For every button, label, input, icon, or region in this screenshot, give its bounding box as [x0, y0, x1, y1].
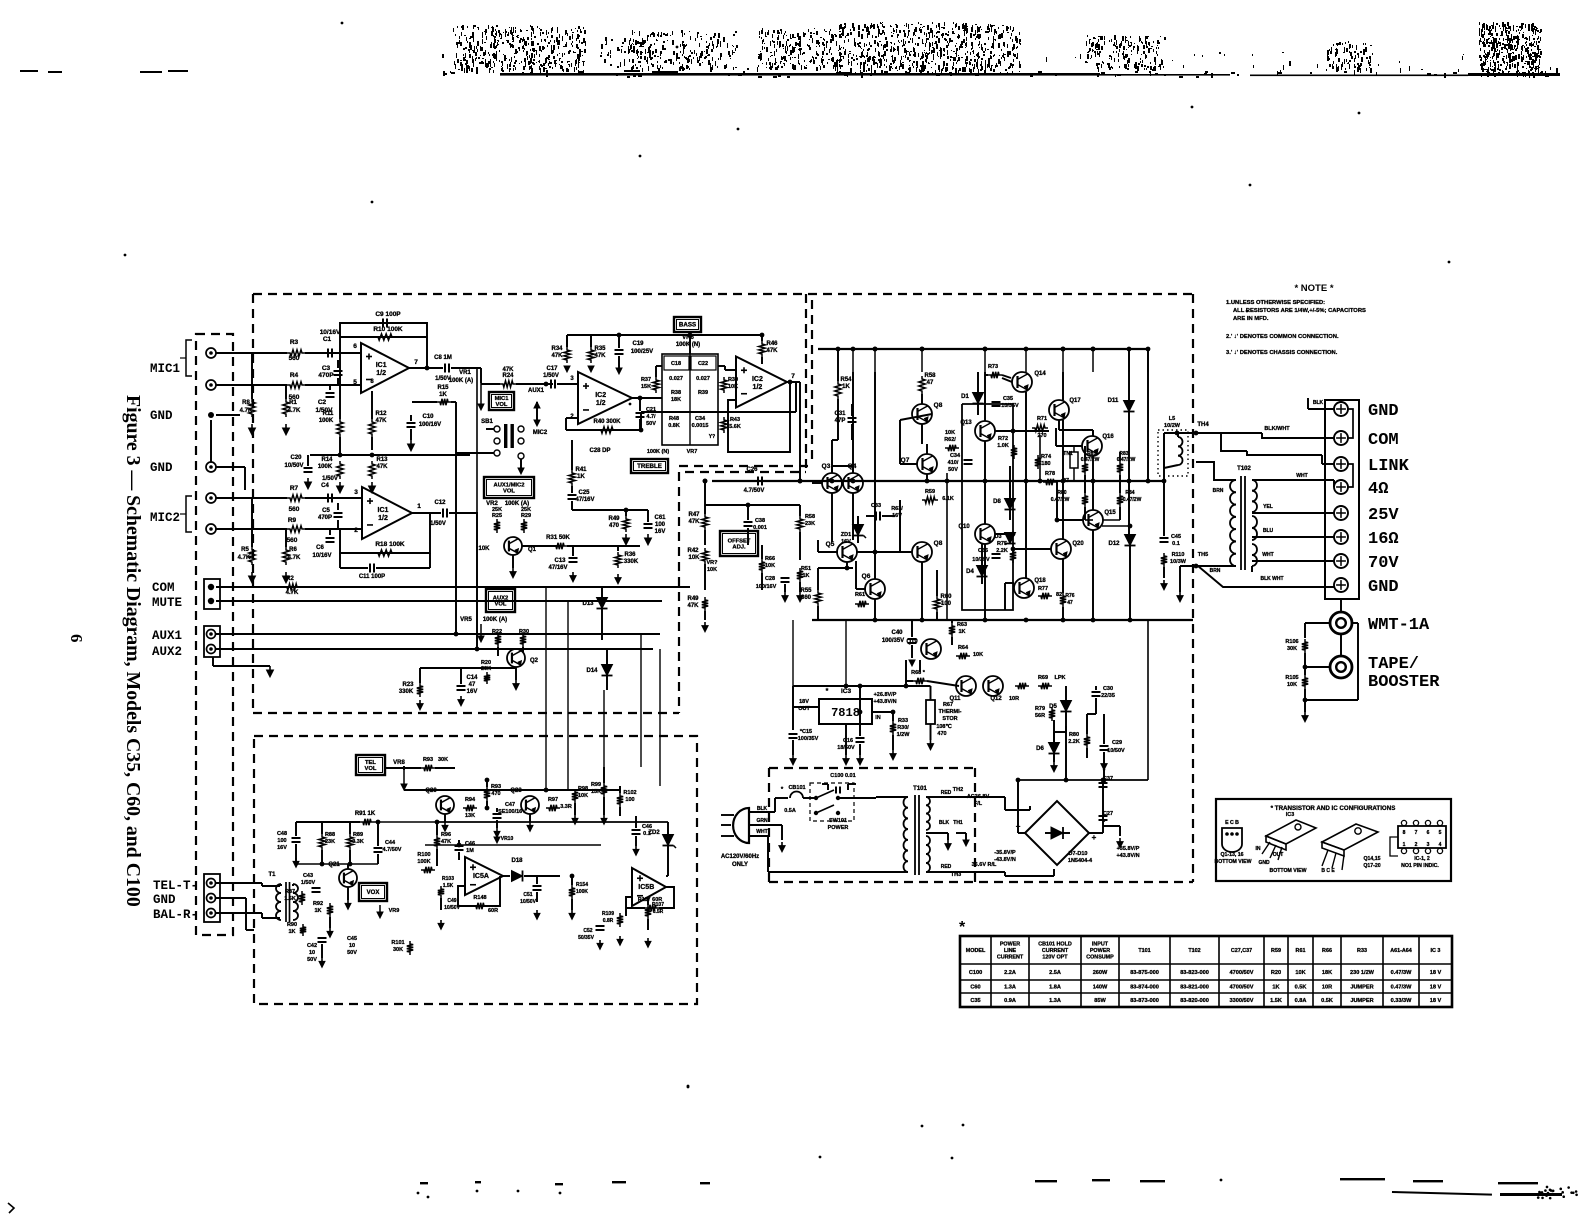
svg-text:10K: 10K	[973, 652, 983, 658]
svg-text:R90: R90	[287, 922, 297, 928]
TEL connector	[204, 874, 220, 922]
resistor R34	[564, 347, 570, 363]
svg-text:Q15: Q15	[1104, 510, 1116, 516]
svg-text:R22: R22	[492, 629, 502, 635]
svg-text:AUX1: AUX1	[528, 388, 545, 394]
svg-text:BOOSTER: BOOSTER	[1368, 673, 1440, 692]
svg-text:R23: R23	[402, 682, 414, 688]
rail supply	[1018, 779, 1148, 781]
svg-text:10/50V: 10/50V	[520, 899, 537, 905]
svg-text:VOL: VOL	[495, 602, 507, 608]
svg-text:470: 470	[609, 523, 620, 529]
terminal 70V	[1334, 554, 1348, 568]
svg-text:Q17-20: Q17-20	[1363, 863, 1380, 869]
svg-text:R98: R98	[578, 786, 588, 792]
transistor Q6	[865, 579, 885, 599]
wire bridge plus	[1089, 832, 1103, 834]
svg-text:R148: R148	[473, 895, 486, 901]
svg-text:IN: IN	[1256, 846, 1261, 852]
resistor R73t	[988, 372, 1002, 378]
wire Q13 row	[995, 430, 1049, 432]
wire x853	[852, 372, 854, 473]
svg-text:0.5K: 0.5K	[1295, 985, 1307, 991]
svg-text:VOL: VOL	[365, 766, 377, 772]
svg-text:C4: C4	[321, 483, 329, 489]
svg-text:47: 47	[469, 682, 476, 688]
transformer T102 core	[1240, 476, 1242, 570]
svg-text:VOL: VOL	[496, 402, 508, 408]
op-amp IC5A	[465, 857, 503, 895]
scan dash bottom	[1498, 1182, 1538, 1184]
svg-text:BOTTOM VIEW: BOTTOM VIEW	[1214, 859, 1251, 865]
resistor R88	[319, 834, 325, 850]
diode D1	[973, 393, 984, 404]
svg-text:330K: 330K	[624, 559, 639, 565]
wire x1148	[1147, 349, 1149, 481]
resistor R58	[919, 376, 925, 394]
svg-text:13K: 13K	[465, 813, 475, 819]
svg-text:R54: R54	[840, 377, 852, 383]
svg-text:+: +	[1092, 833, 1097, 842]
svg-text:23K: 23K	[805, 521, 815, 527]
svg-text:T101: T101	[1138, 948, 1150, 954]
capacitor C38	[744, 521, 753, 523]
bridge rectifier D7-D10	[1025, 801, 1089, 865]
svg-text:47K: 47K	[551, 353, 563, 359]
svg-text:2.5A: 2.5A	[1049, 970, 1061, 976]
svg-text:R94: R94	[465, 797, 476, 803]
svg-text:R106: R106	[1285, 639, 1298, 645]
svg-text:C27: C27	[1103, 811, 1113, 817]
transistor Q20t	[436, 796, 454, 814]
wire q6 base	[856, 588, 866, 590]
svg-text:BOTTOM VIEW: BOTTOM VIEW	[1269, 868, 1306, 874]
resistor R71	[1032, 425, 1048, 431]
output node wires	[1091, 479, 1096, 484]
wire plug grn	[748, 824, 782, 826]
svg-text:18/50V: 18/50V	[837, 745, 855, 751]
svg-text:0.8K: 0.8K	[668, 423, 680, 429]
svg-text:100K (A): 100K (A)	[449, 378, 473, 384]
capacitor C12	[442, 509, 444, 518]
resistor R90	[300, 924, 306, 936]
svg-text:C13: C13	[554, 558, 566, 564]
svg-text:R29: R29	[521, 513, 531, 519]
tone network box	[662, 354, 718, 445]
svg-text:R55: R55	[800, 588, 812, 594]
svg-text:MIC1: MIC1	[495, 396, 510, 402]
svg-text:1.3A: 1.3A	[1004, 985, 1016, 991]
terminal strip	[1325, 400, 1359, 599]
svg-text:R43: R43	[730, 417, 740, 423]
resistor R35	[588, 347, 594, 363]
svg-text:R36: R36	[624, 552, 636, 558]
wire q20 em	[444, 814, 446, 822]
wire MIC1 ret	[216, 384, 287, 386]
breaker CB101	[790, 792, 803, 799]
wire plug hot	[748, 811, 775, 813]
svg-text:R101: R101	[391, 940, 404, 946]
capacitor C15	[789, 733, 798, 735]
svg-text:R109: R109	[602, 911, 614, 917]
svg-text:IC5B: IC5B	[638, 884, 654, 891]
COM/MUTE connector	[204, 579, 220, 609]
svg-text:WHT: WHT	[1262, 552, 1273, 558]
scan dash bottom	[420, 1182, 428, 1184]
svg-text:C1: C1	[323, 336, 332, 343]
resistor R8	[249, 399, 255, 417]
svg-text:85W: 85W	[1094, 998, 1106, 1004]
box BASS	[674, 317, 701, 332]
svg-text:TH4: TH4	[1197, 422, 1209, 428]
svg-text:1.5K: 1.5K	[443, 883, 454, 889]
svg-text:0.8A: 0.8A	[1295, 998, 1307, 1004]
svg-text:IC5A: IC5A	[473, 873, 489, 880]
svg-text:AUX2: AUX2	[493, 595, 508, 601]
svg-text:1K: 1K	[842, 384, 850, 390]
svg-text:100K: 100K	[417, 859, 430, 865]
svg-text:C47: C47	[505, 802, 515, 808]
svg-text:Q23: Q23	[510, 788, 522, 794]
svg-text:R3: R3	[290, 339, 299, 346]
transistor Q11	[956, 676, 976, 696]
resistor R10 100K	[375, 334, 395, 340]
MIC2 bracket	[186, 496, 192, 532]
svg-text:1.5K: 1.5K	[1270, 998, 1282, 1004]
svg-text:R7: R7	[290, 485, 299, 492]
svg-text:47K: 47K	[502, 367, 514, 373]
svg-text:4.7/: 4.7/	[646, 414, 656, 420]
svg-text:CURRENT: CURRENT	[997, 954, 1024, 960]
wire offset rows	[705, 504, 800, 506]
svg-text:R67: R67	[943, 702, 953, 708]
svg-text:R33: R33	[1357, 948, 1367, 954]
svg-text:18 V: 18 V	[1430, 998, 1442, 1004]
capacitor C51	[533, 885, 542, 887]
svg-text:R40 300K: R40 300K	[593, 419, 621, 425]
wire vbus x1093 top	[1092, 349, 1094, 372]
scan dash bottom	[1140, 1180, 1165, 1182]
wires switch	[455, 402, 457, 560]
wire L1 node	[1163, 433, 1165, 481]
svg-text:4700/50V: 4700/50V	[1230, 970, 1254, 976]
svg-text:R99: R99	[591, 782, 601, 788]
resistor R107	[645, 905, 651, 919]
svg-text:C100 0.01: C100 0.01	[830, 773, 855, 779]
svg-text:R103: R103	[442, 876, 454, 882]
svg-text:0.47/2W: 0.47/2W	[1081, 457, 1100, 463]
svg-text:R66: R66	[1322, 948, 1332, 954]
svg-text:4Ω: 4Ω	[1368, 480, 1388, 499]
svg-text:IC1: IC1	[378, 507, 389, 514]
capacitor C46b	[632, 829, 641, 831]
scan dash bottom	[1340, 1178, 1385, 1180]
capacitor C44	[374, 847, 383, 849]
svg-text:R117 60R: R117 60R	[638, 897, 662, 903]
svg-text:1N5404-4: 1N5404-4	[1068, 858, 1093, 864]
pot VR2 AUX/MIC2	[470, 513, 477, 520]
svg-text:JUMPER: JUMPER	[1350, 985, 1373, 991]
sec tap 70V	[1252, 560, 1334, 562]
svg-text:10/16V: 10/16V	[320, 329, 341, 336]
wire vbus x947	[946, 473, 948, 620]
svg-text:R71: R71	[1037, 416, 1047, 422]
transistor Q19	[921, 639, 941, 659]
svg-text:83-823-000: 83-823-000	[1180, 970, 1209, 976]
svg-text:BLU: BLU	[1263, 528, 1274, 534]
wire x922	[921, 562, 923, 620]
vertical bus x477	[476, 560, 478, 649]
svg-text:IC2: IC2	[595, 392, 606, 399]
wire TH5 gnd	[1180, 565, 1198, 567]
wire TH4 to transformer	[1196, 433, 1247, 451]
svg-text:4.7K: 4.7K	[288, 555, 301, 561]
capacitor C46t	[455, 845, 464, 847]
capacitor C1	[327, 349, 329, 358]
svg-text:IC3: IC3	[841, 688, 852, 695]
config DIP8 IC1 IC2	[1398, 826, 1446, 848]
svg-text:WHT: WHT	[1296, 473, 1307, 479]
zener ZD2	[663, 835, 674, 846]
wire drop x906	[905, 660, 907, 686]
wire Q20b row	[1013, 548, 1051, 550]
svg-text:WMT-1A: WMT-1A	[1368, 616, 1430, 635]
svg-text:50V: 50V	[646, 421, 656, 427]
ground near C27	[1103, 825, 1120, 827]
svg-text:R63: R63	[957, 622, 967, 628]
resistor R39b	[721, 377, 727, 393]
svg-text:R49: R49	[687, 596, 699, 602]
svg-text:100/16V: 100/16V	[419, 422, 441, 428]
svg-text:Q7: Q7	[901, 457, 910, 464]
wire Q8b base	[900, 551, 912, 553]
wire bridge minus	[1018, 832, 1025, 834]
wire tel in	[216, 882, 262, 884]
svg-text:BLK WHT: BLK WHT	[1260, 576, 1283, 582]
svg-text:R68 *: R68 *	[911, 670, 926, 676]
svg-text:RED: RED	[941, 864, 952, 870]
svg-text:R73: R73	[988, 364, 998, 370]
capacitor C42	[318, 937, 327, 939]
svg-text:C27,C37: C27,C37	[1231, 948, 1252, 954]
op-amp IC2a	[578, 372, 632, 424]
svg-text:1.0K: 1.0K	[997, 443, 1009, 449]
svg-text:470P: 470P	[318, 515, 332, 521]
svg-text:0.001: 0.001	[753, 525, 767, 531]
svg-text:R84: R84	[1125, 490, 1134, 496]
wire link	[1322, 463, 1334, 465]
svg-text:VR1: VR1	[459, 370, 471, 376]
wire feed x568	[567, 601, 569, 790]
svg-text:0.47/3W: 0.47/3W	[1391, 985, 1413, 991]
box TREBLE	[631, 459, 668, 473]
feedback R148	[458, 876, 500, 906]
svg-text:C45: C45	[347, 936, 357, 942]
wire AUX2 bus	[216, 648, 653, 650]
junction dots rails	[873, 347, 878, 352]
diode D8	[1005, 499, 1016, 510]
resistor R91	[360, 819, 374, 825]
wire AUX1 bus	[216, 633, 660, 635]
feedback R18 C11	[340, 513, 430, 553]
svg-text:R59: R59	[1271, 948, 1281, 954]
svg-text:C46: C46	[642, 824, 652, 830]
box AUX1/MIC2 VOL	[484, 477, 534, 498]
wire x1063	[1062, 372, 1064, 400]
svg-text:0.33/3W: 0.33/3W	[1391, 998, 1413, 1004]
connector terminal MIC1 ret	[206, 380, 216, 390]
transistor Q15	[1083, 510, 1103, 530]
wire x985	[984, 372, 986, 421]
op-amp IC4	[362, 487, 412, 539]
svg-text:LINE: LINE	[1004, 948, 1017, 954]
wire vr8 row	[385, 767, 421, 769]
svg-text:1/2: 1/2	[596, 400, 606, 407]
svg-text:18 V: 18 V	[1430, 970, 1442, 976]
svg-text:BRN: BRN	[1210, 568, 1221, 574]
ground below R1	[285, 424, 287, 429]
terminal 4Ω	[1334, 480, 1348, 494]
svg-text:COM: COM	[1368, 431, 1399, 450]
svg-text:1/2: 1/2	[378, 515, 388, 522]
svg-text:TEL: TEL	[365, 760, 376, 766]
resistor R97	[546, 805, 560, 811]
transistor Q8b	[912, 542, 932, 562]
wire Q1 node	[522, 545, 560, 547]
MIC1 bracket	[186, 340, 192, 376]
svg-text:R31 50K: R31 50K	[546, 535, 570, 541]
svg-text:1/2: 1/2	[376, 370, 386, 377]
wire vbus x900	[899, 500, 901, 552]
capacitor C16	[856, 737, 865, 739]
transistor Q3	[822, 473, 842, 493]
svg-text:R77: R77	[1038, 586, 1048, 592]
svg-text:100: 100	[655, 522, 666, 528]
svg-text:C30: C30	[1103, 686, 1113, 692]
svg-text:100K: 100K	[318, 464, 333, 470]
resistor R40 fb	[566, 417, 578, 419]
svg-text:NO1 PIN INDIC.: NO1 PIN INDIC.	[1401, 863, 1439, 869]
wire plug wht	[748, 835, 768, 837]
svg-text:IC1: IC1	[376, 362, 387, 369]
resistor R54	[835, 381, 841, 399]
svg-text:47/16V: 47/16V	[548, 565, 567, 571]
svg-text:R25: R25	[492, 513, 502, 519]
svg-text:R74: R74	[1041, 454, 1052, 460]
transformer T1	[276, 884, 281, 893]
wire jack right	[1351, 622, 1358, 624]
emitter resistor R84	[1117, 493, 1123, 507]
svg-text:VR5: VR5	[460, 617, 472, 623]
wire GND stub	[210, 420, 212, 462]
svg-text:R18 100K: R18 100K	[375, 541, 405, 548]
wire MIC1 hot	[216, 352, 287, 354]
transistor Q7	[917, 454, 937, 474]
dashed box power supply	[769, 768, 975, 882]
resistor R49b	[702, 597, 708, 611]
svg-text:JUMPER: JUMPER	[1350, 998, 1373, 1004]
svg-text:WHT: WHT	[756, 829, 767, 835]
wire aux row	[420, 667, 516, 669]
svg-text:1K: 1K	[1272, 985, 1279, 991]
wire psu up	[1065, 726, 1067, 780]
svg-text:LPK: LPK	[1055, 675, 1066, 681]
svg-text:1K: 1K	[577, 474, 585, 480]
svg-text:* NOTE *: * NOTE *	[1294, 283, 1333, 294]
wire sec mid gnd	[947, 833, 949, 840]
inductor L1 dotted box	[1158, 430, 1188, 476]
svg-text:IC3: IC3	[1286, 812, 1294, 818]
wire tel wiper rail	[425, 844, 601, 846]
svg-text:GND: GND	[1368, 402, 1399, 421]
svg-text:RED: RED	[941, 790, 952, 796]
svg-text:R48: R48	[669, 416, 679, 422]
capacitor C30	[1092, 691, 1101, 693]
svg-text:R88: R88	[325, 832, 335, 838]
node row y455	[310, 454, 470, 456]
svg-text:10/50V: 10/50V	[284, 463, 303, 469]
svg-text:TH5: TH5	[1198, 552, 1208, 558]
svg-text:+43.8V/N: +43.8V/N	[1116, 853, 1139, 859]
svg-text:C9 100P: C9 100P	[375, 311, 401, 318]
svg-text:R79: R79	[1035, 706, 1045, 712]
svg-text:4.7K: 4.7K	[286, 590, 299, 596]
svg-text:100K (N): 100K (N)	[676, 342, 700, 348]
capacitor C4	[327, 494, 329, 503]
svg-text:R63/: R63/	[891, 506, 903, 512]
svg-text:R89: R89	[353, 832, 363, 838]
svg-text:+43.8V/N: +43.8V/N	[873, 699, 896, 705]
wire Q2 em	[515, 667, 517, 680]
svg-text:10/2W: 10/2W	[1164, 423, 1181, 429]
svg-text:30K: 30K	[393, 947, 403, 953]
op-amp IC1a	[361, 343, 409, 393]
svg-text:4: 4	[1439, 842, 1442, 848]
capacitor C33	[875, 512, 877, 521]
svg-text:C26: C26	[746, 467, 758, 473]
wire blkwht	[1221, 432, 1262, 434]
wire MUTE bus	[216, 600, 662, 602]
resistor R46	[759, 341, 765, 357]
svg-text:1/50V: 1/50V	[543, 373, 559, 379]
svg-text:108℃: 108℃	[936, 723, 952, 730]
resistor R47	[702, 514, 708, 530]
svg-text:47/16V: 47/16V	[575, 497, 594, 503]
svg-text:R110: R110	[1172, 552, 1185, 558]
svg-text:2.2K: 2.2K	[1068, 739, 1080, 745]
svg-text:3300/50V: 3300/50V	[1230, 998, 1254, 1004]
svg-text:CB101: CB101	[788, 785, 805, 791]
capacitor C45	[1160, 537, 1169, 539]
sec tap 25V	[1252, 512, 1334, 514]
wire Q16 base	[1056, 445, 1082, 447]
resistor R42	[702, 548, 708, 564]
box OFFSET ADJ	[720, 531, 758, 556]
svg-text:C21: C21	[646, 407, 656, 413]
svg-text:6: 6	[353, 343, 357, 350]
svg-text:10K: 10K	[688, 555, 700, 561]
wire reg feed	[792, 686, 794, 707]
svg-text:100: 100	[625, 797, 634, 803]
svg-text:VR8: VR8	[393, 760, 405, 766]
op-amp IC2b	[736, 357, 787, 408]
svg-text:C16: C16	[843, 738, 853, 744]
jack WMT-1A	[1330, 612, 1352, 634]
svg-text:R61: R61	[855, 592, 865, 598]
svg-text:IN: IN	[875, 715, 881, 721]
svg-text:Q21: Q21	[328, 862, 340, 868]
resistor R4	[287, 382, 305, 388]
